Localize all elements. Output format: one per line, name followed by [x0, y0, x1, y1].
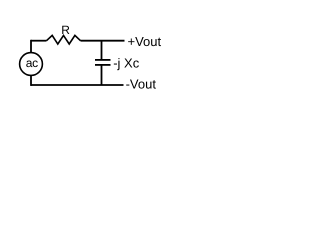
wire: left vertical from source down to bottom wire	[30, 75, 32, 86]
wire: top-left lead from source to resistor	[31, 40, 47, 42]
capacitor C top plate	[95, 59, 111, 61]
ac source circle	[20, 53, 43, 76]
wire: capacitor top stem from top wire	[101, 41, 103, 60]
wire: left vertical from top wire down to source	[30, 40, 32, 53]
wire: bottom wire from source to -Vout terminal	[31, 84, 124, 86]
capacitor C bottom plate	[95, 64, 111, 66]
wire: capacitor bottom stem to bottom wire	[101, 65, 103, 85]
wire: top wire from resistor to +Vout terminal	[81, 40, 125, 42]
resistor R	[47, 35, 81, 44]
svg-text:-Vout: -Vout	[126, 76, 157, 91]
svg-text:+Vout: +Vout	[128, 34, 162, 49]
svg-text:ac: ac	[26, 56, 38, 70]
svg-text:-j Xc: -j Xc	[113, 55, 140, 70]
svg-text:R: R	[61, 23, 70, 37]
